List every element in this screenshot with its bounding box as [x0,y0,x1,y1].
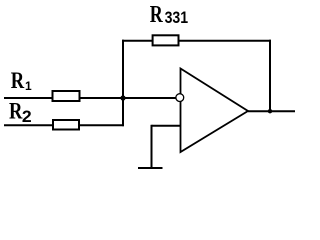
svg-text:331: 331 [165,8,189,27]
svg-text:2: 2 [22,107,32,126]
svg-text:R: R [9,99,23,124]
svg-text:R: R [150,1,163,28]
svg-text:R: R [11,68,25,93]
svg-text:1: 1 [25,79,32,93]
